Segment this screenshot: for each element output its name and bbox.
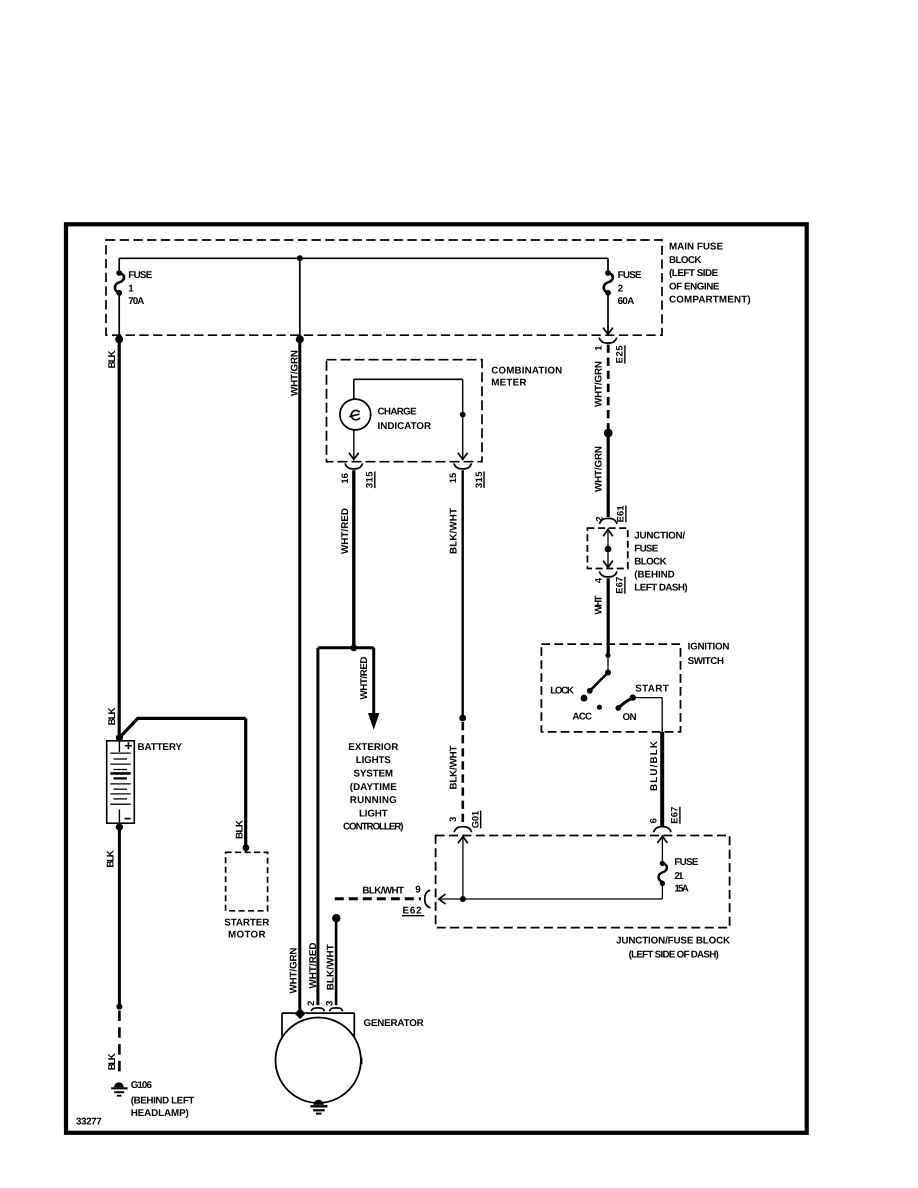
svg-text:LEFT DASH): LEFT DASH) <box>634 583 687 594</box>
svg-text:21: 21 <box>674 871 684 882</box>
wire: ON contact to box edge <box>633 698 662 732</box>
svg-text:BLK: BLK <box>107 350 118 368</box>
svg-text:WHT/RED: WHT/RED <box>359 657 370 700</box>
node: splice <box>604 429 613 438</box>
svg-text:315: 315 <box>473 472 484 489</box>
fuse 1 70A <box>115 258 153 335</box>
svg-text:METER: METER <box>491 377 526 388</box>
svg-text:E62: E62 <box>403 906 423 917</box>
ignition switch: rotor blade <box>587 673 608 694</box>
junction/fuse block (behind left dash) <box>587 528 687 594</box>
svg-text:WHT/RED: WHT/RED <box>308 943 319 989</box>
svg-text:BLOCK: BLOCK <box>669 255 701 266</box>
starter motor <box>224 852 269 940</box>
fuse 21 15A <box>659 857 699 894</box>
ground G106 (behind left headlamp) <box>111 1080 194 1119</box>
ignition switch <box>541 642 729 732</box>
svg-text:WHT: WHT <box>594 595 605 614</box>
svg-text:(LEFT SIDE: (LEFT SIDE <box>669 268 719 279</box>
contact ON / START bridge <box>615 684 668 723</box>
connector E61 pin 2 <box>593 505 626 524</box>
node: junction block splice <box>605 546 612 553</box>
svg-text:E61: E61 <box>615 505 626 522</box>
svg-text:E67: E67 <box>614 577 625 594</box>
svg-text:LIGHTS: LIGHTS <box>356 755 391 766</box>
wire WHT/GRN: trunk bus to generator <box>288 258 300 1009</box>
wire: E67 into block to fuse 21 <box>658 836 668 862</box>
connector 315 pin 16 <box>339 463 375 488</box>
svg-text:CHARGE: CHARGE <box>378 407 418 418</box>
charge indicator <box>340 399 431 432</box>
svg-text:WHT/GRN: WHT/GRN <box>594 361 605 407</box>
connector E25 pin 1 <box>593 338 625 364</box>
svg-text:WHT/RED: WHT/RED <box>340 508 351 554</box>
wire BLK: battery positive to starter motor <box>119 718 245 846</box>
svg-text:33277: 33277 <box>76 1116 102 1127</box>
wire: block internal to G01 <box>458 837 468 900</box>
main fuse block (left side of engine compartment) <box>106 240 751 335</box>
svg-text:70A: 70A <box>128 296 144 307</box>
svg-text:BLK/WHT: BLK/WHT <box>326 944 337 990</box>
wire: fuse 2 to connector E25 <box>603 294 613 334</box>
svg-text:INDICATOR: INDICATOR <box>378 421 432 432</box>
contact LOCK <box>550 686 587 702</box>
svg-text:G01: G01 <box>469 811 480 829</box>
svg-text:GENERATOR: GENERATOR <box>364 1018 424 1029</box>
svg-text:COMBINATION: COMBINATION <box>491 365 562 376</box>
connector 315 pin 15 <box>447 463 484 488</box>
combination meter <box>327 360 563 462</box>
node: G01 branch tap <box>460 896 466 902</box>
svg-text:COMPARTMENT): COMPARTMENT) <box>669 295 751 306</box>
svg-text:BATTERY: BATTERY <box>138 742 183 753</box>
svg-text:FUSE: FUSE <box>618 270 642 281</box>
wire WHT/RED: branch to exterior lights controller <box>354 648 380 730</box>
generator pin 2 <box>305 1001 324 1012</box>
wire BLK/WHT: meter pin 15 to G01 <box>448 470 462 824</box>
svg-text:FUSE: FUSE <box>128 270 152 281</box>
svg-text:OF ENGINE: OF ENGINE <box>669 281 720 292</box>
wire BLK/WHT: E62 branch (dashed) <box>335 885 421 899</box>
node: starter motor terminal <box>243 844 250 852</box>
svg-text:315: 315 <box>364 471 375 488</box>
node: battery positive terminal <box>116 734 123 741</box>
svg-text:HEADLAMP): HEADLAMP) <box>131 1108 189 1119</box>
svg-text:2: 2 <box>305 1001 316 1006</box>
svg-text:FUSE: FUSE <box>674 857 698 868</box>
node: BLK ground splice <box>116 1004 122 1010</box>
wire WHT/GRN: splice to connector E61 <box>594 433 609 517</box>
node: bus tap to WHT/GRN <box>297 255 303 261</box>
contact ACC <box>572 705 602 723</box>
node: BLK/WHT splice <box>459 715 466 722</box>
svg-text:STARTER: STARTER <box>224 918 269 929</box>
generator <box>276 1013 424 1103</box>
wire: junction block internal <box>603 530 613 568</box>
wire WHT/GRN: E25 to splice (dashed) <box>594 345 609 431</box>
connector G01 pin 3 <box>447 811 481 833</box>
svg-text:E67: E67 <box>669 807 680 824</box>
svg-text:JUNCTION/: JUNCTION/ <box>634 531 685 542</box>
wire BLK: to ground G106 (dashed) <box>107 1011 119 1077</box>
svg-text:BLK/WHT: BLK/WHT <box>362 885 404 896</box>
svg-text:WHT/GRN: WHT/GRN <box>594 446 605 492</box>
node: meter internal tap <box>460 412 466 418</box>
svg-text:ACC: ACC <box>572 711 592 722</box>
wire BLU/BLK: ignition switch to E67 <box>649 732 662 826</box>
svg-text:BLK: BLK <box>106 850 117 868</box>
svg-text:BLOCK: BLOCK <box>634 557 666 568</box>
svg-text:1: 1 <box>128 283 134 294</box>
wire: main bus inside fuse block <box>119 257 608 259</box>
fuse 2 60A <box>604 258 642 307</box>
svg-text:BLK: BLK <box>107 707 118 725</box>
wire WHT/RED: meter pin 16 down <box>340 470 354 648</box>
svg-text:ON: ON <box>623 712 637 723</box>
svg-text:BLU/BLK: BLU/BLK <box>649 741 660 791</box>
svg-text:BLK/WHT: BLK/WHT <box>448 745 459 789</box>
wire BLK: battery negative down <box>106 827 120 1006</box>
svg-text:LIGHT: LIGHT <box>359 808 388 819</box>
svg-text:(BEHIND: (BEHIND <box>634 570 674 581</box>
exterior lights system (daytime running light controller) <box>343 742 404 833</box>
wire WHT: E67 to ignition switch <box>594 578 609 653</box>
generator pin 1 <box>360 1058 362 1064</box>
svg-text:60A: 60A <box>618 296 635 307</box>
node: generator WHT/GRN terminal <box>295 1008 306 1019</box>
svg-text:3: 3 <box>447 817 458 822</box>
svg-text:LOCK: LOCK <box>550 686 574 697</box>
node: bus junction at WHT/GRN <box>296 335 304 343</box>
wire BLK/WHT: to generator pin 3 <box>326 918 337 1005</box>
svg-text:JUNCTION/FUSE BLOCK: JUNCTION/FUSE BLOCK <box>616 935 730 946</box>
wire BLK: fuse 1 to battery <box>107 339 119 738</box>
connector E62 pin 9 <box>402 885 430 917</box>
node: WHT/RED branch <box>350 644 357 651</box>
svg-text:2: 2 <box>618 283 624 294</box>
svg-text:G106: G106 <box>131 1080 153 1091</box>
node: BLK/WHT generator branch <box>332 914 340 922</box>
svg-text:FUSE: FUSE <box>634 544 658 555</box>
wire: meter internal <box>349 379 468 459</box>
svg-text:BLK: BLK <box>107 1053 118 1070</box>
svg-text:16: 16 <box>339 473 350 484</box>
svg-text:START: START <box>635 684 669 695</box>
junction/fuse block (left side of dash) <box>436 836 730 961</box>
wire: fuse 21 to connector E62 (block internal) <box>439 883 663 904</box>
svg-text:9: 9 <box>415 885 421 896</box>
connector E67 pin 4 <box>592 571 625 593</box>
ignition switch: input node and pivot <box>605 653 611 676</box>
svg-text:(DAYTIME: (DAYTIME <box>350 782 397 793</box>
battery <box>107 741 183 823</box>
svg-text:MOTOR: MOTOR <box>228 930 265 941</box>
svg-text:15: 15 <box>447 473 458 484</box>
svg-text:SWITCH: SWITCH <box>688 656 724 667</box>
wire WHT/RED: branch to generator pin 2 <box>308 648 354 1005</box>
node: battery negative terminal <box>116 824 123 831</box>
ground (generator case) <box>310 1100 327 1114</box>
svg-text:3: 3 <box>323 1001 334 1006</box>
generator pin 3 <box>323 1001 342 1012</box>
svg-text:SYSTEM: SYSTEM <box>354 769 394 780</box>
svg-text:BLK/WHT: BLK/WHT <box>448 508 459 554</box>
svg-text:BLK: BLK <box>234 820 245 839</box>
svg-text:2: 2 <box>593 516 604 521</box>
svg-text:4: 4 <box>592 577 603 583</box>
connector E67 pin 6 <box>648 807 680 833</box>
svg-text:EXTERIOR: EXTERIOR <box>348 742 398 753</box>
svg-text:CONTROLLER): CONTROLLER) <box>343 822 404 833</box>
node: fuse 1 output junction <box>115 335 123 343</box>
svg-text:IGNITION: IGNITION <box>688 642 730 653</box>
svg-text:15A: 15A <box>674 884 688 895</box>
svg-text:6: 6 <box>648 818 659 823</box>
svg-text:E25: E25 <box>614 345 625 363</box>
svg-text:RUNNING: RUNNING <box>350 795 397 806</box>
svg-text:WHT/GRN: WHT/GRN <box>289 350 300 396</box>
svg-text:1: 1 <box>593 346 604 351</box>
svg-text:(LEFT SIDE OF DASH): (LEFT SIDE OF DASH) <box>629 950 719 961</box>
svg-text:WHT/GRN: WHT/GRN <box>288 948 299 994</box>
svg-text:(BEHIND LEFT: (BEHIND LEFT <box>131 1095 195 1106</box>
svg-text:MAIN FUSE: MAIN FUSE <box>669 242 723 253</box>
